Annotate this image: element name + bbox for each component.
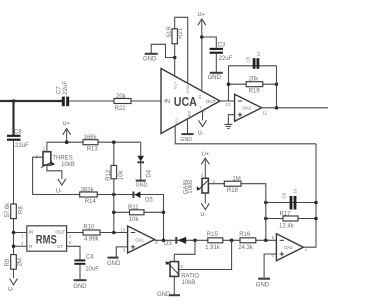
svg-text:57.6k: 57.6k <box>5 202 11 218</box>
junction: left rail / IT pin <box>12 245 16 249</box>
potentiometer THRES 10kB <box>36 142 75 168</box>
svg-text:D5: D5 <box>145 197 153 203</box>
svg-text:OA1: OA1 <box>135 237 144 242</box>
wire: D4 branch drop <box>140 142 142 156</box>
svg-text:10kB: 10kB <box>61 162 75 168</box>
wire: RMS IT pin wire <box>14 245 27 247</box>
diode D4 <box>137 156 152 178</box>
svg-text:2: 2 <box>198 95 200 99</box>
svg-text:OA3: OA3 <box>243 106 252 111</box>
junction: R13 right / R12 top / D4 <box>112 140 116 144</box>
op-amp OA3 <box>235 94 268 121</box>
junction: R11 right <box>162 211 166 215</box>
svg-text:C6: C6 <box>282 192 287 198</box>
junction: R19 right <box>275 82 279 86</box>
svg-text:RATIO: RATIO <box>181 274 199 280</box>
junction: R17 right <box>314 217 318 221</box>
capacitor C8 <box>7 130 29 149</box>
svg-text:SYM: SYM <box>186 85 190 93</box>
svg-text:RMS: RMS <box>36 233 57 246</box>
svg-text:4.99k: 4.99k <box>84 237 100 243</box>
svg-text:R21: R21 <box>178 27 184 39</box>
wire: RATIO top lead branch <box>174 240 195 261</box>
svg-text:R11: R11 <box>128 205 139 211</box>
capacitor C4 <box>74 254 99 272</box>
junction: U+ node <box>65 140 69 144</box>
supply arrow U+ (VCA supply) <box>198 12 206 25</box>
svg-text:R10: R10 <box>83 225 95 231</box>
wire: C7 to R22 to VCA IN <box>69 100 161 102</box>
resistor R21 (vertical) <box>167 26 184 44</box>
resistor R12 (vertical) <box>106 142 124 232</box>
supply arrow U- (VCA supply) <box>198 120 207 136</box>
svg-text:D3: D3 <box>164 241 172 247</box>
svg-text:12.4k: 12.4k <box>279 223 295 229</box>
svg-text:22uF: 22uF <box>63 81 69 95</box>
svg-text:R16: R16 <box>239 232 251 238</box>
wire: OA2 + input to ground <box>264 254 276 278</box>
junction: RATIO top branch <box>193 239 197 243</box>
svg-text:24.3k: 24.3k <box>238 245 254 251</box>
svg-text:13: 13 <box>225 102 230 107</box>
svg-text:R13: R13 <box>87 146 99 152</box>
junction: R19 left <box>227 82 231 86</box>
wire: OA1 output row to OA2 inverting input (through D3, R15, R16) <box>155 239 277 241</box>
ground below RATIO <box>157 292 180 298</box>
resistor R19 <box>246 77 263 95</box>
wire: branch to C3 <box>202 37 217 48</box>
svg-text:1n: 1n <box>256 51 261 57</box>
svg-text:GND: GND <box>157 292 171 298</box>
wire: left rail C8 down to U- (through R8, R9) <box>13 141 15 278</box>
wire: C4 to ground <box>79 265 81 280</box>
supply arrow U- below GAIN <box>200 203 209 218</box>
svg-text:GND: GND <box>143 56 157 62</box>
wire: OA3 + input to earth ground <box>228 115 234 124</box>
wire: R14 right to D5 row and vertical rail x=163.5 <box>97 195 163 241</box>
svg-text:R8: R8 <box>19 206 25 214</box>
resistor R10 <box>83 225 100 243</box>
ground below C3 <box>208 73 223 81</box>
svg-text:1u: 1u <box>292 188 297 194</box>
svg-text:3: 3 <box>199 105 201 109</box>
wire: RATIO wiper to R15/R16 node <box>179 240 232 269</box>
junction: C6 left <box>264 201 268 205</box>
resistor R14 <box>80 187 98 205</box>
junction: R14/R12/D5 node <box>112 193 116 197</box>
wire: U+ down to VCA V+ pin <box>201 20 203 91</box>
resistor R16 <box>238 232 256 251</box>
svg-text:THRES: THRES <box>52 155 72 161</box>
wire: VCA SYM pin up to R21 junction <box>174 29 176 76</box>
wire: OA3 output line <box>262 107 328 109</box>
junction: R11 left <box>112 211 116 215</box>
svg-text:168k: 168k <box>84 135 98 141</box>
svg-text:C4: C4 <box>86 254 94 260</box>
svg-text:10kB: 10kB <box>182 280 196 286</box>
svg-text:GND: GND <box>107 261 121 267</box>
svg-text:IT: IT <box>29 244 33 249</box>
diode D3 <box>164 237 186 247</box>
VCA U1 (triangle) <box>161 69 220 134</box>
svg-text:10: 10 <box>121 228 126 233</box>
RMS detector block U2 <box>27 226 67 251</box>
op-amp OA2 <box>271 234 307 261</box>
svg-text:10kB: 10kB <box>188 180 194 194</box>
capacitor C6 <box>282 188 298 209</box>
svg-text:U-: U- <box>56 189 62 195</box>
resistor R11 <box>114 205 164 223</box>
svg-text:UCA: UCA <box>174 94 197 109</box>
wire: C3 to ground <box>215 54 217 72</box>
ground at R21 network <box>143 54 158 63</box>
svg-text:D4: D4 <box>147 169 153 177</box>
wire: GAIN wiper to R18 <box>208 183 224 185</box>
resistor R13 <box>83 135 98 152</box>
capacitor C3 <box>210 43 233 62</box>
svg-text:EC-: EC- <box>175 117 179 124</box>
diode D5 <box>133 191 153 203</box>
ground below VCA <box>180 134 193 143</box>
junction: OA2 inverting node <box>264 239 268 243</box>
wire: R17 feedback row <box>266 218 316 220</box>
wire: row THRES top / R13 / D4 branch <box>47 141 141 143</box>
wire: GAIN bottom to U- <box>204 193 206 204</box>
svg-text:OUT: OUT <box>206 99 216 104</box>
svg-text:1M: 1M <box>232 177 240 183</box>
svg-text:12: 12 <box>262 110 267 115</box>
earth ground below OA3 <box>224 124 232 128</box>
junction: R17 left <box>264 217 268 221</box>
wire: OA2 output up the right rail <box>303 144 316 247</box>
svg-text:U-: U- <box>200 212 206 218</box>
wire: OA2 in- rail up to R18 <box>241 184 266 241</box>
resistor R8 <box>5 202 25 219</box>
svg-text:OUT: OUT <box>55 230 65 235</box>
wire: RMS OUT through R10 to OA1 inverting input <box>67 232 128 234</box>
svg-text:R19: R19 <box>249 89 261 95</box>
resistor R15 <box>205 232 223 251</box>
junction: U+ / C3 branch <box>200 35 204 39</box>
svg-text:GND: GND <box>256 283 270 289</box>
svg-text:383k: 383k <box>81 187 95 193</box>
junction: input node to C8 <box>12 99 16 103</box>
junction: R12 rail joins R10/OA1 wire <box>112 231 116 235</box>
wire: VCA GND pin to ground <box>187 119 189 133</box>
svg-text:R18: R18 <box>227 188 239 194</box>
svg-text:C7: C7 <box>56 86 62 94</box>
svg-text:1.91k: 1.91k <box>205 245 221 251</box>
resistor R18 <box>224 177 241 194</box>
wire: OA1 + input to ground <box>116 247 127 257</box>
ground below OA2 + input <box>256 279 270 289</box>
svg-text:10k: 10k <box>129 217 140 223</box>
svg-text:U+: U+ <box>63 121 70 127</box>
wire: OA3 feedback left rail <box>229 66 277 101</box>
wire: C6 feedback row <box>266 202 316 204</box>
ground below C4 <box>73 280 87 290</box>
svg-text:OA2: OA2 <box>284 245 293 250</box>
svg-text:CT: CT <box>57 244 63 249</box>
svg-text:22uF: 22uF <box>15 143 29 149</box>
ground below OA1 + input <box>107 258 121 268</box>
wire: RMS IN pin wire <box>14 232 27 234</box>
svg-text:10k: 10k <box>119 170 125 181</box>
svg-text:R22: R22 <box>115 106 127 112</box>
svg-text:C8: C8 <box>14 130 22 136</box>
junction: output node / feedback rail <box>275 106 279 110</box>
wire: drop from input node down to C8 (thick) <box>12 101 14 135</box>
junction: rail x=163.5 joins output row <box>162 239 166 243</box>
wire: R21 top loop over to VCA second pin <box>175 17 188 83</box>
ground below D4 <box>136 181 148 189</box>
capacitor C5 <box>245 51 261 69</box>
svg-text:R12: R12 <box>106 169 112 181</box>
svg-text:C5: C5 <box>245 56 250 62</box>
svg-text:R14: R14 <box>85 199 97 205</box>
wire: D4 to ground <box>140 162 142 180</box>
svg-text:10uF: 10uF <box>85 266 99 272</box>
svg-text:EC+: EC+ <box>174 80 178 88</box>
wire: RATIO bottom to ground <box>173 276 175 294</box>
op-amp OA1 <box>121 226 159 253</box>
resistor R22 <box>114 94 131 112</box>
junction: R21 bottom / GND branch <box>173 56 177 60</box>
svg-text:51R: 51R <box>167 26 173 38</box>
svg-text:GND: GND <box>73 284 87 290</box>
wire: VCA output to OA3 inverting input <box>220 100 235 102</box>
potentiometer GAIN 10kB <box>184 173 216 195</box>
wire: feedback right rail down to output node <box>276 66 278 108</box>
wire: RMS CT to C4 <box>67 246 80 259</box>
capacitor C7 (input coupling, polarized) <box>56 81 69 107</box>
VCA control wire from OA2 output rail to VCA EC- pin <box>175 126 316 144</box>
svg-text:GND: GND <box>136 182 148 188</box>
svg-text:22uF: 22uF <box>219 56 233 62</box>
junction: C6 right <box>314 201 318 205</box>
supply arrow U- below THRES <box>56 179 66 195</box>
svg-text:20k: 20k <box>249 77 260 83</box>
svg-text:GND: GND <box>208 75 222 81</box>
resistor R17 <box>279 211 298 229</box>
svg-text:U-: U- <box>198 130 204 136</box>
junction: R15/R16 node to RATIO wiper <box>230 239 234 243</box>
svg-text:GND: GND <box>187 111 191 120</box>
svg-text:2M: 2M <box>18 258 24 266</box>
svg-text:U+: U+ <box>202 152 209 158</box>
svg-text:U-: U- <box>8 287 14 293</box>
svg-text:IN: IN <box>29 230 34 235</box>
svg-text:R9: R9 <box>5 258 11 266</box>
svg-text:GND: GND <box>180 137 192 143</box>
wire: main input line left edge to C7 (thick) <box>0 100 62 102</box>
svg-text:IN: IN <box>164 99 170 105</box>
svg-text:R15: R15 <box>207 232 219 238</box>
wire: GND branch to R21 bottom node <box>151 44 175 57</box>
svg-text:20k: 20k <box>116 94 127 100</box>
svg-text:C3: C3 <box>218 43 226 49</box>
junction: left rail / IN pin <box>12 231 16 235</box>
wire: THRES bottom to U- <box>47 165 62 179</box>
supply arrow U+ above GAIN <box>201 152 209 179</box>
wire: R19 feedback row <box>229 83 277 85</box>
supply arrow U- below R9 <box>8 279 18 294</box>
wire: THRES wiper to R14 row <box>33 157 80 194</box>
resistor R9 <box>5 255 24 270</box>
svg-text:U+: U+ <box>198 12 205 18</box>
wire: VCA V- pin to U- arrow <box>202 111 204 121</box>
supply arrow U+ (threshold network) <box>63 121 71 142</box>
potentiometer RATIO 10kB <box>165 262 199 286</box>
svg-text:R17: R17 <box>280 211 292 217</box>
